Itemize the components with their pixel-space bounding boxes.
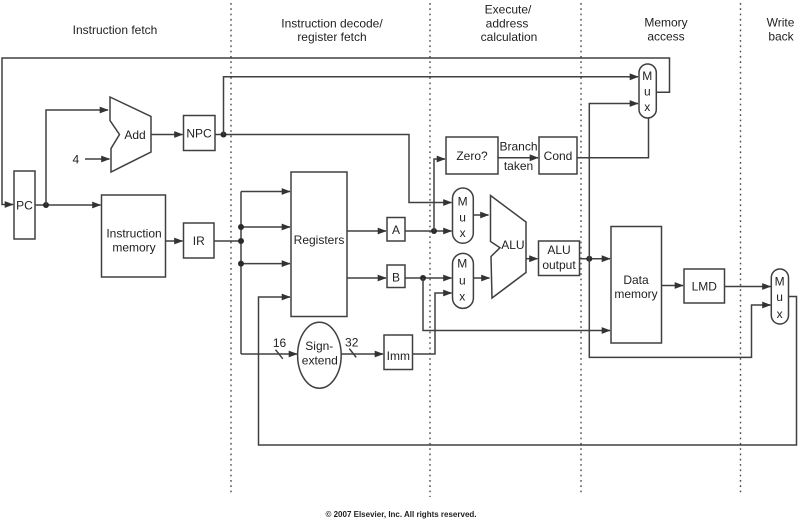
- svg-text:ALU: ALU: [547, 243, 570, 257]
- wire: bus to Registers port 3: [241, 263, 290, 265]
- register file Registers: [291, 172, 347, 317]
- svg-text:Zero?: Zero?: [456, 149, 488, 163]
- svg-text:ALU: ALU: [501, 238, 524, 252]
- wire: Zero? output to Cond: [498, 157, 538, 159]
- net label: Branch taken: [499, 139, 537, 173]
- svg-text:extend: extend: [302, 354, 338, 368]
- svg-text:Instruction decode/: Instruction decode/: [281, 16, 383, 30]
- svg-text:LMD: LMD: [692, 279, 718, 293]
- wire: LMD output to WB mux input 1: [725, 286, 771, 288]
- svg-text:u: u: [776, 290, 783, 304]
- junction: B output node: [420, 275, 426, 281]
- wire: constant 4 to Add input 2: [85, 158, 110, 160]
- wire: PC-select mux output feedback to PC input: [2, 58, 670, 205]
- wire: Instruction memory output to IR: [166, 240, 183, 242]
- wire: NPC output right to EX-stage turn then down to upper mux input 1: [215, 135, 452, 203]
- junction: bus node port 3: [238, 261, 244, 267]
- svg-text:Imm: Imm: [387, 349, 410, 363]
- stage label: Instruction decode/register fetch: [281, 16, 383, 44]
- svg-text:Execute/: Execute/: [485, 2, 532, 16]
- register Cond: [539, 137, 577, 174]
- mux: upper ALU-input mux: [453, 188, 474, 243]
- svg-text:Registers: Registers: [294, 233, 345, 247]
- svg-text:M: M: [775, 275, 785, 289]
- wire: Imm output up to lower ALU mux input 2: [413, 293, 452, 354]
- slash: 16-bit bus mark: [276, 350, 283, 359]
- wire: NPC junction up and right to PC-select mux input 1: [224, 77, 639, 135]
- wire: B output to lower ALU mux input 1: [405, 277, 452, 279]
- wire: lower mux output to ALU: [473, 277, 490, 279]
- svg-text:u: u: [644, 84, 651, 98]
- stage divider dashed line 4 (MEM/WB): [740, 3, 742, 494]
- wire: bus down to Sign-extend input with 16-bit slash: [241, 353, 297, 355]
- junction: A output node: [431, 228, 437, 234]
- stage divider dashed line 1 (IF/ID): [230, 3, 232, 494]
- svg-text:Instruction fetch: Instruction fetch: [73, 23, 158, 37]
- wire: IR output to decode bus: [214, 240, 241, 242]
- svg-text:register fetch: register fetch: [297, 30, 366, 44]
- wire: A junction up to Zero? input: [434, 159, 445, 231]
- svg-text:output: output: [542, 258, 576, 272]
- junction: bus node read port 2: [238, 224, 244, 230]
- register NPC: [184, 116, 216, 151]
- svg-text:32: 32: [345, 336, 359, 350]
- mux: PC-select mux (top right): [639, 64, 656, 118]
- svg-text:M: M: [642, 69, 652, 83]
- svg-text:calculation: calculation: [481, 30, 538, 44]
- memory: Data memory: [611, 227, 662, 344]
- svg-text:IR: IR: [193, 234, 205, 248]
- svg-text:Add: Add: [124, 128, 145, 142]
- wire: bus to Registers read port 1: [241, 191, 290, 193]
- svg-text:A: A: [392, 223, 400, 237]
- wire: ALU output junction up to PC-select mux input 2: [589, 104, 638, 259]
- comparator Zero?: [446, 137, 498, 174]
- sign extender Sign-extend: [298, 322, 342, 388]
- svg-text:taken: taken: [504, 159, 533, 173]
- stage label: Write back: [767, 15, 795, 43]
- svg-text:Write: Write: [767, 15, 795, 29]
- register LMD: [684, 269, 725, 303]
- svg-text:memory: memory: [112, 240, 155, 254]
- svg-text:PC: PC: [16, 198, 33, 212]
- wire: Add output to NPC: [151, 134, 183, 136]
- svg-text:x: x: [460, 226, 466, 240]
- svg-text:Sign-: Sign-: [305, 339, 333, 353]
- wire: Sign-extend output to Imm with 32-bit slash: [341, 353, 383, 355]
- svg-text:back: back: [768, 29, 794, 43]
- junction: ALU output node: [586, 256, 592, 262]
- svg-text:16: 16: [273, 336, 287, 350]
- svg-text:x: x: [644, 100, 650, 114]
- svg-text:B: B: [392, 270, 400, 284]
- wire: Registers output to A: [347, 230, 386, 232]
- register A: [387, 218, 405, 242]
- adder Add: [110, 97, 151, 172]
- svg-text:4: 4: [72, 152, 79, 166]
- svg-text:x: x: [459, 290, 465, 304]
- wire: upper mux output to ALU: [473, 214, 489, 216]
- register PC: [14, 171, 35, 239]
- wire: PC junction up to Add input 1: [46, 110, 108, 205]
- svg-text:u: u: [459, 210, 466, 224]
- svg-text:Memory: Memory: [644, 15, 687, 29]
- svg-text:Instruction: Instruction: [106, 226, 161, 240]
- mux: write-back mux (right): [771, 269, 788, 324]
- junction: PC output node: [43, 202, 49, 208]
- register ALU output: [539, 241, 580, 276]
- wire: Data memory output to LMD: [662, 285, 684, 287]
- memory: Instruction memory: [102, 195, 166, 277]
- wire: bus to Registers read port 2: [241, 226, 290, 228]
- svg-text:M: M: [457, 256, 467, 270]
- svg-text:NPC: NPC: [186, 127, 212, 141]
- svg-text:access: access: [647, 29, 684, 43]
- wire: Registers output to B: [347, 277, 386, 279]
- svg-text:x: x: [777, 307, 783, 321]
- svg-text:address: address: [486, 16, 529, 30]
- junction: NPC output node: [221, 132, 227, 138]
- junction: bus node IR entry: [238, 238, 244, 244]
- svg-text:© 2007 Elsevier, Inc. All righ: © 2007 Elsevier, Inc. All rights reserve…: [325, 510, 476, 519]
- slash: 32-bit bus mark: [349, 349, 356, 358]
- wire: write-back loop from WB mux output to Registers write port: [259, 297, 797, 446]
- wire: B junction down and right to Data memory write port: [423, 278, 610, 331]
- wire: PC output to Instruction memory: [35, 204, 101, 206]
- wire: A output to upper ALU mux input 2: [405, 230, 452, 232]
- svg-text:u: u: [459, 274, 466, 288]
- register B: [387, 265, 405, 288]
- stage label: Execute/address calculation: [481, 2, 538, 44]
- wire: ALU output register to Data memory address: [580, 258, 611, 260]
- stage divider dashed line 3 (EX/MEM): [580, 3, 582, 494]
- wire: decode bus vertical: [240, 192, 242, 355]
- wire: Cond output to PC-select mux select: [577, 119, 649, 158]
- stage label: Memory access: [644, 15, 687, 43]
- register IR: [184, 223, 215, 258]
- stage divider dashed line 2 (ID/EX): [429, 3, 431, 497]
- wire: ALU output bypass down and right to WB mux input 2: [589, 259, 770, 358]
- svg-text:M: M: [458, 195, 468, 209]
- alu ALU: [491, 196, 527, 299]
- wire: ALU output to ALU output register: [526, 258, 538, 260]
- register Imm: [384, 335, 413, 370]
- mux: lower ALU-input mux: [453, 253, 474, 308]
- svg-text:Data: Data: [623, 273, 649, 287]
- svg-text:memory: memory: [614, 287, 657, 301]
- svg-text:Branch: Branch: [499, 139, 537, 153]
- svg-text:Cond: Cond: [544, 149, 573, 163]
